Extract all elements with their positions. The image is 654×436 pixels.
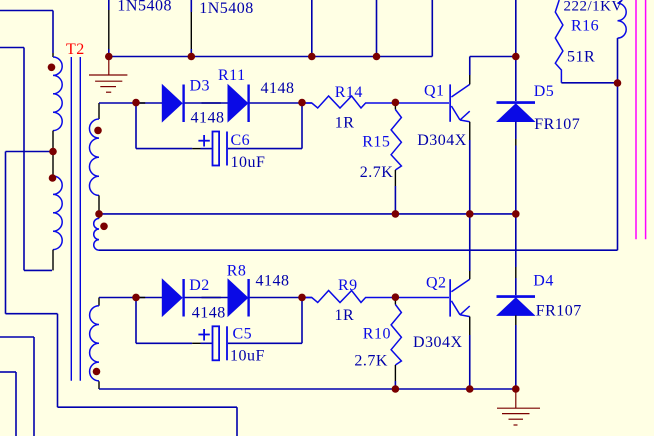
svg-text:D304X: D304X [417, 132, 467, 149]
svg-text:D4: D4 [533, 273, 554, 290]
svg-text:R11: R11 [218, 67, 246, 84]
svg-text:T2: T2 [66, 41, 85, 58]
svg-text:222/1KV: 222/1KV [564, 0, 623, 15]
svg-text:R15: R15 [362, 134, 390, 151]
svg-text:D3: D3 [190, 78, 211, 95]
svg-text:1N5408: 1N5408 [199, 0, 254, 17]
svg-text:D304X: D304X [413, 334, 463, 351]
svg-text:2.7K: 2.7K [360, 164, 394, 181]
svg-text:R10: R10 [363, 326, 391, 343]
svg-text:1R: 1R [335, 115, 355, 132]
svg-text:R9: R9 [338, 277, 358, 294]
svg-text:Q1: Q1 [424, 83, 445, 100]
svg-text:FR107: FR107 [536, 302, 582, 319]
svg-text:R8: R8 [227, 263, 247, 280]
svg-text:D2: D2 [189, 277, 210, 294]
svg-text:4148: 4148 [261, 80, 295, 97]
svg-text:4148: 4148 [192, 305, 226, 322]
svg-text:10uF: 10uF [230, 348, 265, 365]
svg-text:2.7K: 2.7K [354, 353, 388, 370]
svg-text:D5: D5 [534, 83, 555, 100]
svg-text:R14: R14 [335, 84, 363, 101]
svg-text:C6: C6 [231, 132, 251, 149]
svg-text:R16: R16 [571, 17, 599, 34]
svg-text:4148: 4148 [191, 110, 225, 127]
svg-text:1R: 1R [335, 307, 355, 324]
svg-text:4148: 4148 [256, 273, 290, 290]
svg-text:10uF: 10uF [231, 154, 266, 171]
svg-text:Q2: Q2 [426, 275, 447, 292]
svg-text:FR107: FR107 [534, 116, 580, 133]
svg-text:C5: C5 [233, 326, 253, 343]
svg-text:1N5408: 1N5408 [117, 0, 172, 15]
svg-text:51R: 51R [567, 49, 595, 66]
